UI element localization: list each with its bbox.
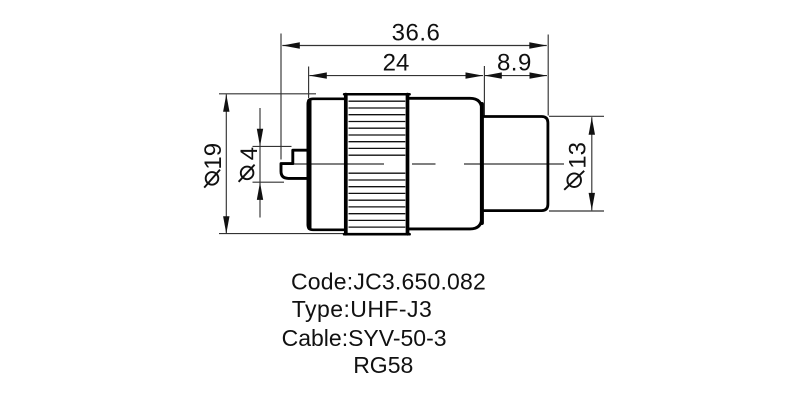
svg-text:Cable:SYV-50-3: Cable:SYV-50-3 (282, 325, 447, 351)
svg-text:Type:UHF-J3: Type:UHF-J3 (292, 296, 432, 322)
svg-text:RG58: RG58 (353, 352, 413, 378)
svg-text:8.9: 8.9 (497, 50, 532, 77)
svg-text:24: 24 (383, 50, 410, 77)
svg-text:13: 13 (565, 142, 592, 169)
svg-text:36.6: 36.6 (392, 20, 441, 47)
svg-text:Code:JC3.650.082: Code:JC3.650.082 (291, 269, 486, 295)
svg-text:4: 4 (236, 147, 263, 160)
svg-text:19: 19 (200, 143, 227, 170)
